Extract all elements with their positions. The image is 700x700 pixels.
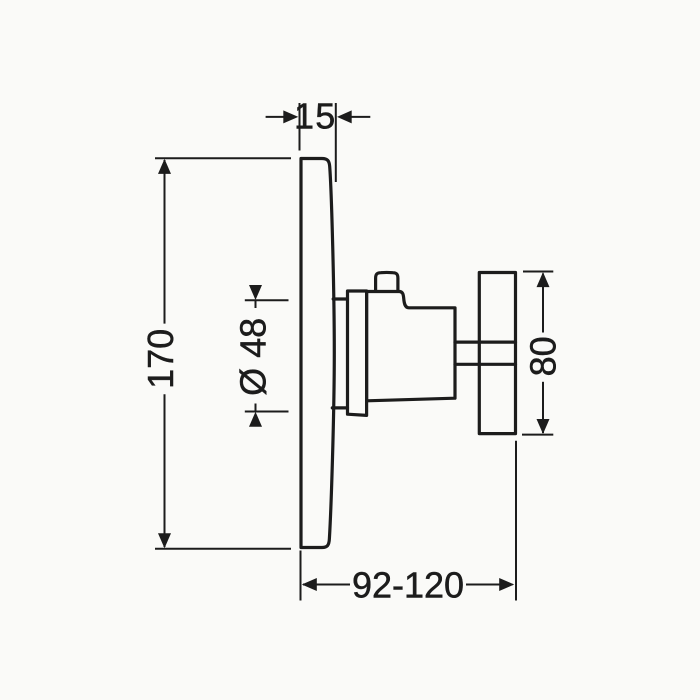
dim o48 top stub: [255, 300, 257, 308]
svg-text:Ø 48: Ø 48: [232, 318, 273, 396]
valve cap (temperature knob stop): [376, 272, 398, 293]
dim 92-120 right arrowhead: [499, 578, 514, 591]
svg-text:170: 170: [140, 329, 181, 389]
dim o48 bottom stub: [255, 404, 257, 412]
cross handle (front bar): [479, 273, 515, 434]
dim 15 extension line right: [335, 103, 337, 182]
handle spoke bottom line: [455, 363, 516, 366]
svg-text:1: 1: [294, 96, 314, 137]
dim 170 top arrowhead: [158, 159, 171, 174]
dim o48 bottom line: [245, 411, 289, 413]
dim o48 top line: [245, 299, 289, 301]
dim 15 left arrow tail: [266, 116, 285, 118]
sleeve top edge (o48 cylinder): [333, 297, 347, 300]
dim 92-120 extension line right: [515, 441, 517, 601]
valve body: [367, 292, 455, 401]
dim 170 line upper segment: [164, 160, 166, 324]
dim o48 top arrowhead: [249, 285, 262, 300]
svg-text:80: 80: [522, 336, 563, 376]
handle spoke top line: [455, 341, 516, 344]
dim 15 extension line left: [299, 103, 301, 151]
dim 80 top arrowhead: [537, 272, 550, 287]
dim 15 right arrowhead: [337, 110, 352, 123]
dim 92-120 line right segment: [466, 584, 513, 586]
wall plate (escutcheon, side profile): [301, 159, 334, 548]
dim 80 extension line top: [523, 271, 553, 273]
dim 15 left arrowhead: [283, 110, 298, 123]
dim 170 bottom arrowhead: [158, 533, 171, 548]
dim 170 line lower segment: [164, 394, 166, 547]
dim 15 right arrow tail: [351, 116, 370, 118]
dim 80 line upper segment: [542, 274, 544, 333]
mounting flange: [348, 291, 367, 415]
dim 80 extension line bottom: [522, 434, 553, 436]
dim 92-120 extension line left: [300, 551, 302, 601]
sleeve bottom edge (o48 cylinder): [332, 406, 347, 409]
svg-text:92-120: 92-120: [352, 564, 464, 605]
dim o48 bottom arrowhead: [249, 412, 262, 427]
dim 170 extension line top: [155, 157, 291, 159]
dim 170 extension line bottom: [155, 548, 291, 550]
dim 92-120 line left segment: [303, 584, 350, 586]
dim 80 bottom arrowhead: [537, 419, 550, 434]
dim 80 line lower segment: [542, 382, 544, 433]
dim 92-120 left arrowhead: [302, 578, 317, 591]
svg-text:5: 5: [315, 96, 335, 137]
